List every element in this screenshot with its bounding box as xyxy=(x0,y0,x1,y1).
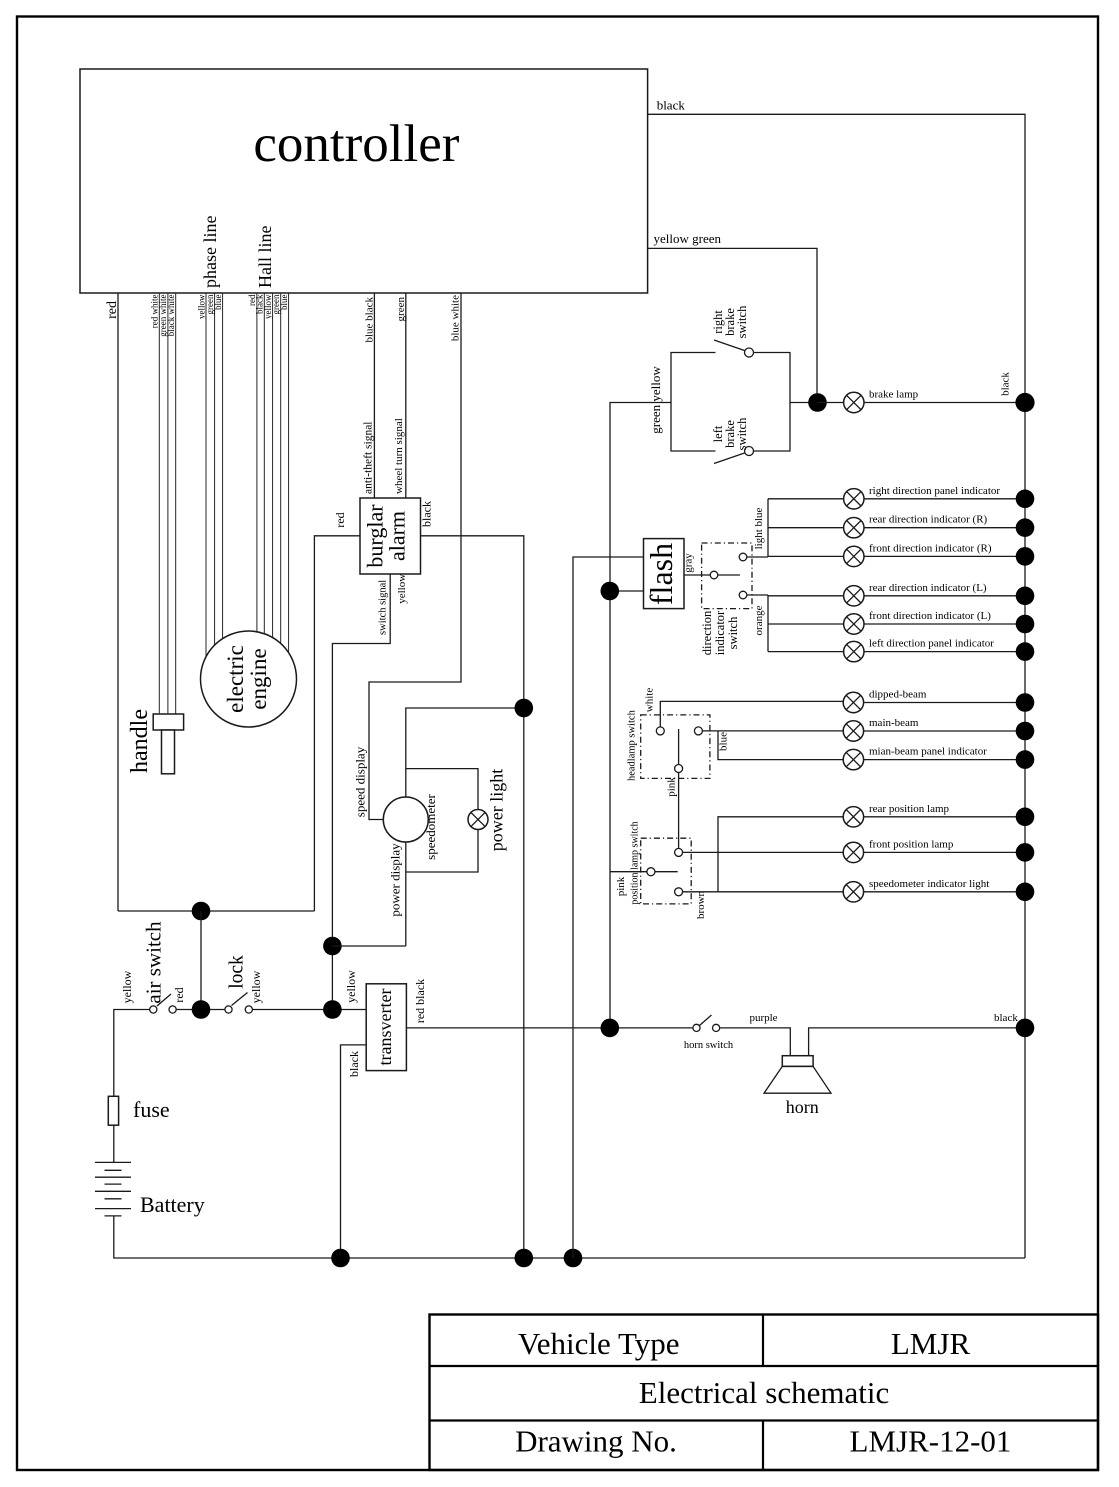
node dot bus main xyxy=(1016,722,1035,741)
wire lamp feed 2 xyxy=(768,527,844,529)
wire lamp 6 to bus xyxy=(864,651,1025,653)
svg-text:switch: switch xyxy=(735,305,749,338)
svg-text:switch signal: switch signal xyxy=(377,580,388,635)
node dot bus mian xyxy=(1016,750,1035,769)
svg-text:position lamp switch: position lamp switch xyxy=(630,821,641,904)
wire left turn bus xyxy=(767,595,769,652)
wire phase blue xyxy=(222,293,224,650)
wire white xyxy=(660,701,844,727)
lamp front position lamp xyxy=(843,842,863,862)
wire horn feed (red black) xyxy=(406,1027,692,1029)
wire alarm black (right, down to bottom rail) xyxy=(421,536,524,1258)
wire green yellow feed xyxy=(610,403,671,1028)
svg-text:yellow: yellow xyxy=(344,970,358,1003)
svg-text:brown: brown xyxy=(695,890,707,919)
wire pink xyxy=(678,773,680,849)
left brake switch S4 xyxy=(714,447,754,464)
battery B1 xyxy=(95,1162,131,1216)
svg-text:red: red xyxy=(333,512,347,527)
node dot power display tap xyxy=(323,937,342,956)
lamp right direction panel indicator xyxy=(844,489,864,509)
svg-text:red: red xyxy=(105,301,120,319)
lamp rear direction indicator (R) xyxy=(844,518,864,538)
svg-text:orange: orange xyxy=(753,605,765,635)
svg-text:purple: purple xyxy=(749,1012,777,1024)
svg-text:electric: electric xyxy=(223,645,248,713)
wire flash lower left feed xyxy=(610,590,644,592)
svg-text:red: red xyxy=(172,987,186,1002)
svg-text:LMJR: LMJR xyxy=(891,1326,971,1361)
right brake switch S3 xyxy=(714,340,754,357)
wire main-beam xyxy=(702,730,844,732)
wire hall red xyxy=(256,293,258,640)
lock S2 xyxy=(225,993,253,1014)
wire lamp feed 4 xyxy=(768,595,844,597)
brake lamp L1 xyxy=(844,392,864,412)
node dot brake lamp feed xyxy=(808,393,827,412)
node dot horn feed xyxy=(601,1019,620,1038)
svg-text:yellow: yellow xyxy=(249,970,263,1003)
svg-text:black: black xyxy=(999,372,1011,396)
svg-text:horn: horn xyxy=(786,1097,819,1117)
wire right turn bus xyxy=(767,499,769,557)
svg-text:black: black xyxy=(347,1051,361,1077)
wire lamp feed 1 xyxy=(768,498,844,500)
node dot bus 1 xyxy=(1016,490,1035,509)
svg-text:rear direction indicator (R): rear direction indicator (R) xyxy=(869,514,988,526)
node dot bottom rail transverter black xyxy=(331,1249,350,1268)
svg-text:switch: switch xyxy=(735,417,749,450)
wire hall green xyxy=(280,293,282,645)
wire power display (speedometer bottom) xyxy=(405,842,407,946)
svg-text:anti-theft signal: anti-theft signal xyxy=(363,422,375,495)
wire lamp feed 3 xyxy=(768,555,844,557)
wire front position to bus xyxy=(864,851,1025,853)
svg-text:Battery: Battery xyxy=(140,1192,205,1217)
wire red white xyxy=(158,293,160,714)
node dot bus 3 xyxy=(1016,547,1035,566)
svg-text:gray: gray xyxy=(683,553,695,573)
wire front position lamp feed xyxy=(683,851,844,853)
svg-text:yellow green: yellow green xyxy=(654,231,722,246)
svg-text:blue: blue xyxy=(213,294,223,310)
wire battery to bottom rail xyxy=(114,1216,1025,1258)
svg-text:engine: engine xyxy=(246,648,271,709)
svg-text:blue black: blue black xyxy=(364,297,376,343)
node dot switch rail xyxy=(192,1000,211,1019)
lamp rear direction indicator (L) xyxy=(844,586,864,606)
wire phase green xyxy=(214,293,216,655)
headlamp switch S6 xyxy=(641,715,710,779)
wire air switch to lock xyxy=(177,1009,225,1011)
svg-text:green: green xyxy=(395,297,407,322)
lamp left direction panel indicator xyxy=(844,641,864,661)
flash K1 xyxy=(643,539,684,609)
svg-text:speedometer indicator light: speedometer indicator light xyxy=(869,878,989,890)
svg-text:rear position lamp: rear position lamp xyxy=(869,803,950,815)
svg-text:pink: pink xyxy=(666,777,678,797)
horn LS1 xyxy=(764,1056,831,1094)
svg-text:Hall line: Hall line xyxy=(255,226,275,288)
svg-text:wheel turn signal: wheel turn signal xyxy=(393,418,405,494)
wire speedometer indicator feed xyxy=(683,891,844,893)
direction indicator switch S5 xyxy=(702,543,752,609)
wire lamp feed 5 xyxy=(768,623,844,625)
wire lamp 3 to bus xyxy=(864,555,1025,557)
wire lamp 5 to bus xyxy=(864,623,1025,625)
svg-text:front direction indicator (R): front direction indicator (R) xyxy=(869,542,992,554)
wire power light bottom xyxy=(406,830,478,873)
node dot black tap xyxy=(515,699,534,718)
lamp rear position lamp xyxy=(843,807,863,827)
position lamp switch S7 xyxy=(641,838,692,904)
wire red (controller left, down to engine rail) xyxy=(117,293,119,911)
svg-text:front position lamp: front position lamp xyxy=(869,838,954,850)
wire horn switch to horn xyxy=(720,1028,790,1056)
svg-text:fuse: fuse xyxy=(133,1097,170,1122)
node dot bus 6 xyxy=(1016,642,1035,661)
svg-text:Drawing No.: Drawing No. xyxy=(515,1424,677,1459)
svg-text:speed display: speed display xyxy=(352,746,367,817)
wire to brake lamp xyxy=(818,402,845,404)
svg-text:air switch: air switch xyxy=(141,921,165,1004)
air switch S1 xyxy=(150,994,177,1013)
node dot bus brake xyxy=(1015,393,1034,412)
node dot bus horn xyxy=(1016,1019,1035,1038)
svg-text:yellow: yellow xyxy=(396,574,408,604)
lamp main-beam xyxy=(843,721,863,741)
svg-text:lock: lock xyxy=(226,955,247,989)
wire lamp 2 to bus xyxy=(864,527,1025,529)
svg-text:power light: power light xyxy=(487,769,507,852)
wire main-beam to bus xyxy=(864,730,1025,732)
svg-text:black: black xyxy=(994,1012,1018,1024)
burglar alarm A1 xyxy=(360,498,421,574)
brake switch box xyxy=(671,353,818,452)
fuse F1 xyxy=(108,1096,118,1125)
wire power display bottom link xyxy=(332,945,405,947)
svg-text:headlamp switch: headlamp switch xyxy=(627,709,638,781)
svg-text:rear direction indicator (L): rear direction indicator (L) xyxy=(869,582,987,594)
svg-text:horn switch: horn switch xyxy=(684,1040,734,1051)
node dot bus 4 xyxy=(1016,587,1035,606)
node dot bus 2 xyxy=(1016,518,1035,537)
wire rear position to bus xyxy=(864,816,1025,818)
node dot bus 5 xyxy=(1016,615,1035,634)
node dot bus speedometer indicator xyxy=(1016,883,1035,902)
wire engine bottom rail xyxy=(118,910,314,912)
node dot bus rear position xyxy=(1016,808,1035,827)
transverter T1 xyxy=(366,984,406,1071)
electric engine M1 xyxy=(201,631,297,727)
svg-text:pink: pink xyxy=(615,876,627,896)
node dot bus dipped xyxy=(1016,693,1035,712)
wire blue black (to burglar alarm) xyxy=(373,293,375,498)
svg-text:alarm: alarm xyxy=(385,511,410,561)
wire transverter black xyxy=(341,1045,367,1258)
svg-text:indicator: indicator xyxy=(713,610,727,655)
svg-text:direction: direction xyxy=(700,610,714,655)
wire speedometer indicator to bus xyxy=(864,891,1025,893)
node dot engine rail xyxy=(192,902,211,921)
wire fuse to battery xyxy=(113,1125,115,1162)
svg-text:black: black xyxy=(420,501,434,527)
wire alarm red (left, down to engine rail) xyxy=(314,536,360,911)
node dot rail tap xyxy=(323,1000,342,1019)
lamp dipped-beam xyxy=(843,692,863,712)
svg-text:flash: flash xyxy=(643,543,679,605)
wire dipped-beam to bus xyxy=(864,702,1025,704)
wire black white xyxy=(175,293,177,714)
svg-text:mian-beam panel indicator: mian-beam panel indicator xyxy=(869,746,987,758)
handle H1 xyxy=(153,714,183,774)
svg-text:green yellow: green yellow xyxy=(648,366,663,434)
svg-text:red black: red black xyxy=(413,979,427,1023)
wire hall yellow xyxy=(272,293,274,640)
svg-text:right direction panel indicato: right direction panel indicator xyxy=(869,485,1000,497)
node dot bus front position xyxy=(1016,843,1035,862)
wire gray xyxy=(684,574,710,576)
controller U1 box xyxy=(80,69,648,293)
svg-text:light blue: light blue xyxy=(753,507,765,549)
wire green (to burglar alarm) xyxy=(405,293,407,498)
wire position pole feed xyxy=(610,871,647,873)
wire rail to switch rail xyxy=(200,911,202,1010)
power light lamp xyxy=(468,810,488,830)
node dot flash feed xyxy=(601,582,620,601)
svg-text:LMJR-12-01: LMJR-12-01 xyxy=(850,1424,1012,1459)
wire blue branch xyxy=(718,731,844,760)
wire switch rail left xyxy=(114,1010,150,1097)
svg-text:blue: blue xyxy=(279,294,289,310)
wire green white xyxy=(167,293,169,714)
wire flash upper left return xyxy=(573,557,644,1258)
svg-text:front direction indicator (L): front direction indicator (L) xyxy=(869,610,991,622)
svg-text:power display: power display xyxy=(388,843,403,917)
svg-text:dipped-beam: dipped-beam xyxy=(869,689,927,701)
svg-text:transverter: transverter xyxy=(375,989,395,1066)
wire hall blue xyxy=(288,293,290,655)
wire lower contact to bus xyxy=(747,594,768,596)
wire speedometer top to black tap xyxy=(406,708,524,797)
speedometer P1 xyxy=(383,797,428,842)
lamp mian-beam panel indicator xyxy=(843,749,863,769)
svg-text:speedometer: speedometer xyxy=(423,793,438,859)
wire lock to transverter xyxy=(253,1009,366,1011)
wire power light branch xyxy=(406,769,478,811)
horn switch S8 xyxy=(693,1015,720,1032)
title block xyxy=(430,1315,1099,1471)
wire brown branch xyxy=(718,817,844,892)
lamp speedometer indicator light xyxy=(843,882,863,902)
svg-text:black: black xyxy=(657,98,686,113)
svg-text:left direction panel indicator: left direction panel indicator xyxy=(869,638,994,650)
svg-text:switch: switch xyxy=(726,616,740,649)
lamp front direction indicator (R) xyxy=(844,546,864,566)
svg-text:phase line: phase line xyxy=(200,216,220,288)
wire horn to bus xyxy=(809,1028,1025,1056)
wire blue white (speed display feed) xyxy=(369,293,461,820)
node dot bottom rail flash return xyxy=(564,1249,583,1268)
wire lamp feed 6 xyxy=(768,651,844,653)
wire controller black (top right) xyxy=(648,114,1025,1258)
svg-text:black white: black white xyxy=(166,295,176,337)
wire lamp 4 to bus xyxy=(864,595,1025,597)
wire phase yellow xyxy=(205,293,207,665)
svg-text:brake lamp: brake lamp xyxy=(869,389,919,401)
svg-text:blue white: blue white xyxy=(449,295,461,341)
wire upper contact to bus xyxy=(747,556,768,558)
node dot bottom rail alarm black xyxy=(515,1249,534,1268)
lamp front direction indicator (L) xyxy=(844,614,864,634)
wire controller yellow green xyxy=(648,248,817,402)
wire switch signal (alarm bottom) xyxy=(332,574,390,1010)
svg-text:Vehicle Type: Vehicle Type xyxy=(518,1326,680,1361)
svg-text:controller: controller xyxy=(253,115,459,173)
svg-text:yellow: yellow xyxy=(120,970,134,1003)
wire mian-beam panel to bus xyxy=(864,759,1025,761)
svg-text:main-beam: main-beam xyxy=(869,717,919,729)
svg-text:blue: blue xyxy=(718,732,730,751)
wire hall black xyxy=(263,293,265,640)
wire lamp 1 to bus xyxy=(864,498,1025,500)
wire brake lamp to bus xyxy=(864,402,1025,404)
svg-text:Electrical schematic: Electrical schematic xyxy=(639,1375,889,1410)
svg-text:handle: handle xyxy=(127,709,153,773)
svg-text:white: white xyxy=(644,688,656,713)
